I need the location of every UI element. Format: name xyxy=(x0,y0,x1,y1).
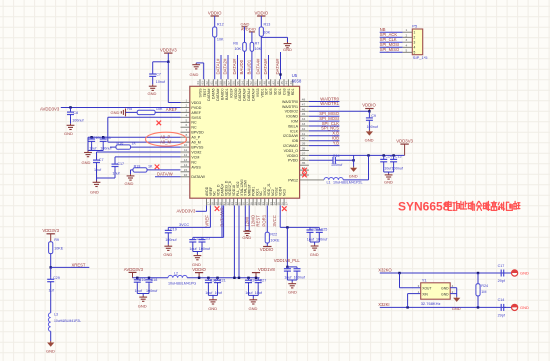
svg-text:DATA4#: DATA4# xyxy=(256,58,261,74)
svg-text:100nuf: 100nuf xyxy=(294,276,306,280)
svg-text:DATA3#: DATA3# xyxy=(232,58,237,74)
svg-text:I2CWA/D: I2CWA/D xyxy=(283,144,298,148)
svg-text:GND: GND xyxy=(138,303,147,308)
svg-text:1nuf: 1nuf xyxy=(94,168,102,172)
svg-text:60: 60 xyxy=(214,81,218,85)
svg-text:1K: 1K xyxy=(148,164,153,168)
svg-text:VDD3: VDD3 xyxy=(191,101,201,105)
svg-text:BAUD1: BAUD1 xyxy=(246,59,251,74)
svg-text:AVSS: AVSS xyxy=(191,165,201,169)
svg-text:VDDIO: VDDIO xyxy=(254,10,268,15)
svg-text:40: 40 xyxy=(302,137,306,141)
svg-text:29pf: 29pf xyxy=(498,313,506,317)
svg-text:CS3: CS3 xyxy=(282,88,286,95)
svg-text:100nuf: 100nuf xyxy=(165,238,177,242)
svg-text:37: 37 xyxy=(302,151,306,155)
svg-text:48: 48 xyxy=(302,98,306,102)
svg-text:100nuf: 100nuf xyxy=(199,247,211,251)
svg-text:GND: GND xyxy=(441,286,449,290)
svg-text:GND: GND xyxy=(163,252,172,257)
svg-text:PVDD: PVDD xyxy=(288,159,298,163)
svg-text:VDD3_O: VDD3_O xyxy=(284,149,299,153)
svg-text:SD1: SD1 xyxy=(278,88,282,95)
svg-text:15: 15 xyxy=(184,168,188,172)
svg-text:3: 3 xyxy=(185,108,187,112)
svg-text:BPVDD: BPVDD xyxy=(191,131,204,135)
svg-text:GND: GND xyxy=(192,262,201,267)
svg-text:4: 4 xyxy=(406,43,408,47)
svg-text:C8: C8 xyxy=(73,111,78,115)
svg-text:1: 1 xyxy=(414,31,416,35)
svg-text:45: 45 xyxy=(302,112,306,116)
svg-text:VDDIO: VDDIO xyxy=(362,103,376,108)
svg-text:IOGND: IOGND xyxy=(286,115,298,119)
svg-text:41: 41 xyxy=(302,132,306,136)
svg-text:1uf: 1uf xyxy=(49,288,55,292)
svg-text:SD7: SD7 xyxy=(265,88,269,95)
svg-text:43: 43 xyxy=(302,122,306,126)
svg-text:10K: 10K xyxy=(156,107,163,111)
svg-text:14: 14 xyxy=(184,163,188,167)
svg-text:47: 47 xyxy=(302,102,306,106)
svg-text:R22: R22 xyxy=(270,232,277,236)
svg-text:VDD3V3: VDD3V3 xyxy=(42,228,59,233)
svg-text:I2CDA/W: I2CDA/W xyxy=(283,134,299,138)
svg-text:6658: 6658 xyxy=(292,79,302,84)
svg-text:POR1: POR1 xyxy=(262,214,267,226)
svg-text:BAUD1: BAUD1 xyxy=(225,88,229,99)
svg-text:VDD3V3: VDD3V3 xyxy=(160,48,177,53)
svg-text:SD5: SD5 xyxy=(269,88,273,95)
svg-text:100nuf: 100nuf xyxy=(316,237,328,241)
svg-text:59: 59 xyxy=(218,81,222,85)
svg-text:10uf: 10uf xyxy=(215,291,223,295)
svg-text:62: 62 xyxy=(205,81,209,85)
svg-text:DATA6#: DATA6# xyxy=(207,88,211,100)
svg-text:RD1: RD1 xyxy=(291,88,295,95)
svg-text:2: 2 xyxy=(414,36,416,40)
svg-text:XREST: XREST xyxy=(72,262,86,267)
svg-text:IOB: IOB xyxy=(292,139,299,143)
svg-text:100nuf: 100nuf xyxy=(72,118,84,122)
svg-text:GND: GND xyxy=(365,137,374,142)
svg-text:PW12: PW12 xyxy=(288,178,298,182)
svg-text:VDDIO2: VDDIO2 xyxy=(285,110,298,114)
svg-text:L2: L2 xyxy=(174,272,178,276)
svg-text:52: 52 xyxy=(249,81,253,85)
svg-text:X32KI: X32KI xyxy=(378,302,389,307)
svg-text:AVDD3V3: AVDD3V3 xyxy=(177,209,196,214)
svg-text:WA/DTR1: WA/DTR1 xyxy=(282,105,298,109)
svg-text:10KE: 10KE xyxy=(54,247,64,251)
svg-text:X32KO: X32KO xyxy=(378,268,392,273)
svg-text:100nuf: 100nuf xyxy=(367,125,379,129)
svg-text:NC: NC xyxy=(191,126,197,130)
svg-text:61: 61 xyxy=(210,81,214,85)
svg-text:XIN: XIN xyxy=(422,292,428,296)
svg-text:10uH&BLM41PG: 10uH&BLM41PG xyxy=(168,281,196,285)
svg-text:13: 13 xyxy=(184,158,188,162)
svg-text:U5: U5 xyxy=(292,73,298,78)
svg-text:WA/DTR1: WA/DTR1 xyxy=(320,101,339,106)
svg-text:Y.B: Y.B xyxy=(333,140,339,145)
svg-text:47: 47 xyxy=(271,81,275,85)
svg-text:GND: GND xyxy=(82,160,91,165)
svg-text:GND: GND xyxy=(64,131,73,136)
svg-text:45: 45 xyxy=(280,81,284,85)
svg-text:VCM: VCM xyxy=(191,155,199,159)
svg-text:Y1: Y1 xyxy=(422,277,428,282)
svg-text:VDD1V8_PLL: VDD1V8_PLL xyxy=(274,258,301,263)
svg-text:GND: GND xyxy=(190,72,199,77)
svg-text:DATA5: DATA5 xyxy=(212,88,216,99)
svg-text:DATA2#: DATA2# xyxy=(238,88,242,100)
svg-text:GND: GND xyxy=(520,271,529,276)
svg-text:VDDIO: VDDIO xyxy=(192,267,206,272)
svg-text:VCM2: VCM2 xyxy=(191,150,201,154)
svg-text:AVDD3V3: AVDD3V3 xyxy=(124,267,144,272)
svg-text:SVSS: SVSS xyxy=(191,116,201,120)
svg-text:56: 56 xyxy=(232,81,236,85)
svg-text:29pf: 29pf xyxy=(498,279,506,283)
svg-text:R6: R6 xyxy=(233,42,238,46)
svg-text:GND: GND xyxy=(249,306,258,311)
svg-text:10uH&BLM41P2L: 10uH&BLM41P2L xyxy=(333,181,363,185)
svg-text:SIP_1*5: SIP_1*5 xyxy=(413,55,428,60)
svg-text:C13: C13 xyxy=(395,155,402,159)
svg-text:TEST: TEST xyxy=(203,89,207,98)
svg-text:32.768KHz: 32.768KHz xyxy=(421,301,441,306)
svg-text:VDDIO: VDDIO xyxy=(234,88,238,99)
svg-text:DATA0#: DATA0# xyxy=(251,88,255,100)
svg-text:44: 44 xyxy=(302,117,306,121)
svg-text:DATA4#: DATA4# xyxy=(216,88,220,100)
svg-text:1nuf: 1nuf xyxy=(307,237,315,241)
svg-text:7: 7 xyxy=(185,128,187,132)
svg-text:DATA/W: DATA/W xyxy=(191,175,205,179)
svg-text:GND: GND xyxy=(46,349,55,354)
svg-text:10KE: 10KE xyxy=(270,239,280,243)
svg-text:16: 16 xyxy=(184,173,188,177)
svg-text:1K: 1K xyxy=(132,142,137,146)
svg-text:58: 58 xyxy=(223,81,227,85)
svg-text:38: 38 xyxy=(302,147,306,151)
svg-text:GND: GND xyxy=(111,110,120,115)
svg-text:R16: R16 xyxy=(117,142,124,146)
svg-text:VREF: VREF xyxy=(205,215,210,227)
svg-text:6: 6 xyxy=(185,123,187,127)
svg-text:5: 5 xyxy=(406,48,408,52)
svg-text:VDDIO: VDDIO xyxy=(208,10,222,15)
svg-text:P5: P5 xyxy=(412,24,418,29)
svg-text:1M: 1M xyxy=(481,290,486,294)
svg-text:VDDIO: VDDIO xyxy=(260,247,274,252)
svg-text:3VCC: 3VCC xyxy=(272,215,277,226)
svg-text:A0_P: A0_P xyxy=(191,136,200,140)
svg-text:GND: GND xyxy=(208,306,217,311)
svg-text:1nuf: 1nuf xyxy=(284,276,292,280)
svg-text:ICLK: ICLK xyxy=(290,129,299,133)
svg-text:AREF: AREF xyxy=(166,107,178,112)
svg-text:PVDD: PVDD xyxy=(191,106,201,110)
svg-text:BAUD0: BAUD0 xyxy=(239,59,244,74)
svg-text:WR1: WR1 xyxy=(287,88,291,96)
svg-text:1nuf: 1nuf xyxy=(135,289,143,293)
svg-text:48: 48 xyxy=(267,81,271,85)
svg-text:WA/DTR0: WA/DTR0 xyxy=(282,100,298,104)
svg-text:64: 64 xyxy=(196,81,200,85)
svg-text:DATA2#: DATA2# xyxy=(222,58,227,74)
svg-text:IOM: IOM xyxy=(291,120,298,124)
svg-text:NC3: NC3 xyxy=(283,189,287,196)
svg-text:3VCC: 3VCC xyxy=(179,223,189,227)
svg-text:VDD1: VDD1 xyxy=(260,88,264,97)
svg-text:NC: NC xyxy=(191,121,197,125)
svg-text:GND: GND xyxy=(452,306,461,311)
svg-text:C7: C7 xyxy=(156,73,161,77)
svg-text:SD3: SD3 xyxy=(274,88,278,95)
svg-text:1nuf: 1nuf xyxy=(245,291,253,295)
svg-text:53: 53 xyxy=(245,81,249,85)
svg-text:1nuf: 1nuf xyxy=(205,291,213,295)
svg-text:12: 12 xyxy=(184,153,188,157)
svg-text:100nuf: 100nuf xyxy=(146,289,158,293)
svg-text:IO02#: IO02# xyxy=(229,88,233,97)
svg-text:R19: R19 xyxy=(134,164,141,168)
svg-text:100nuf: 100nuf xyxy=(331,163,343,167)
svg-text:GND: GND xyxy=(90,190,99,195)
svg-text:R9: R9 xyxy=(54,238,59,242)
svg-text:54: 54 xyxy=(240,81,244,85)
svg-text:63: 63 xyxy=(201,81,205,85)
svg-text:A0_M: A0_M xyxy=(191,141,200,145)
svg-text:BPVSS: BPVSS xyxy=(191,146,204,150)
svg-text:49: 49 xyxy=(263,81,267,85)
svg-text:42: 42 xyxy=(302,127,306,131)
svg-text:2: 2 xyxy=(185,104,187,108)
svg-text:R13: R13 xyxy=(264,22,271,26)
svg-text:REST: REST xyxy=(256,215,261,227)
svg-text:GND: GND xyxy=(283,47,292,52)
svg-text:4: 4 xyxy=(414,46,416,50)
svg-text:DATA/W: DATA/W xyxy=(157,172,173,177)
svg-text:1nuf: 1nuf xyxy=(112,172,120,176)
svg-text:1nuf: 1nuf xyxy=(189,247,197,251)
svg-text:3: 3 xyxy=(414,41,416,45)
svg-text:3: 3 xyxy=(406,38,408,42)
svg-text:35: 35 xyxy=(302,161,306,165)
svg-text:46: 46 xyxy=(276,81,280,85)
svg-text:GND: GND xyxy=(441,292,449,296)
svg-text:BAUD0: BAUD0 xyxy=(221,88,225,99)
svg-text:AREF: AREF xyxy=(191,111,201,115)
svg-text:C14: C14 xyxy=(333,154,340,158)
svg-text:R7: R7 xyxy=(255,42,260,46)
svg-text:10K: 10K xyxy=(217,38,224,42)
svg-text:55: 55 xyxy=(236,81,240,85)
svg-text:DATA5#: DATA5# xyxy=(263,58,268,74)
svg-text:DATA3#: DATA3# xyxy=(243,88,247,100)
svg-text:R12: R12 xyxy=(217,22,224,26)
svg-text:AVDDIO: AVDDIO xyxy=(241,27,256,32)
svg-text:10K: 10K xyxy=(264,30,271,34)
svg-text:ISELA: ISELA xyxy=(288,124,299,128)
svg-text:GND: GND xyxy=(242,235,251,240)
svg-text:37: 37 xyxy=(284,202,288,206)
svg-text:2: 2 xyxy=(406,33,408,37)
svg-text:1nuf: 1nuf xyxy=(89,146,97,150)
svg-text:5: 5 xyxy=(414,51,416,55)
svg-text:VSS3: VSS3 xyxy=(256,88,260,97)
svg-text:51: 51 xyxy=(254,81,258,85)
svg-text:GND: GND xyxy=(310,252,319,257)
svg-text:10uf: 10uf xyxy=(255,291,263,295)
svg-text:10uH&BLM41P2L: 10uH&BLM41P2L xyxy=(54,319,81,323)
svg-text:VDD3V3: VDD3V3 xyxy=(396,138,413,143)
svg-text:GND: GND xyxy=(288,290,297,295)
svg-text:DATA1#: DATA1# xyxy=(247,88,251,100)
svg-text:GND: GND xyxy=(148,91,157,96)
svg-text:39: 39 xyxy=(302,142,306,146)
svg-text:GND: GND xyxy=(520,305,529,310)
svg-text:C14: C14 xyxy=(385,155,392,159)
svg-text:57: 57 xyxy=(227,81,231,85)
svg-text:46: 46 xyxy=(302,107,306,111)
svg-text:4: 4 xyxy=(185,113,187,117)
svg-text:GND: GND xyxy=(125,181,134,186)
svg-text:A0_M: A0_M xyxy=(160,139,171,144)
svg-text:L1: L1 xyxy=(327,181,331,185)
svg-text:50: 50 xyxy=(258,81,262,85)
svg-text:NC: NC xyxy=(191,160,197,164)
svg-text:R24: R24 xyxy=(481,284,488,288)
svg-text:R5: R5 xyxy=(127,107,132,111)
svg-text:11: 11 xyxy=(184,148,187,152)
svg-text:GND: GND xyxy=(349,174,358,179)
svg-text:XOUT: XOUT xyxy=(422,286,431,290)
svg-text:L3: L3 xyxy=(54,313,58,317)
svg-text:10K: 10K xyxy=(234,47,241,51)
svg-text:36: 36 xyxy=(302,156,306,160)
svg-text:C17: C17 xyxy=(498,264,505,268)
svg-text:44: 44 xyxy=(285,81,289,85)
svg-text:GND: GND xyxy=(384,180,393,185)
svg-text:DATA1#: DATA1# xyxy=(215,58,220,74)
svg-text:AVDD3V3: AVDD3V3 xyxy=(40,106,60,111)
svg-text:VDDIO: VDDIO xyxy=(287,154,299,158)
svg-text:5: 5 xyxy=(185,118,187,122)
svg-text:SYN6658: SYN6658 xyxy=(398,200,450,214)
svg-text:C14: C14 xyxy=(498,298,505,302)
svg-text:10: 10 xyxy=(184,143,188,147)
svg-text:SVSS: SVSS xyxy=(198,88,202,98)
svg-text:1: 1 xyxy=(406,28,408,32)
svg-text:VDD1V8: VDD1V8 xyxy=(258,267,275,272)
svg-text:10nuf: 10nuf xyxy=(156,80,166,84)
svg-text:1: 1 xyxy=(185,99,187,103)
svg-text:DATA6#: DATA6# xyxy=(275,58,280,74)
svg-text:10K: 10K xyxy=(255,47,262,51)
svg-text:SPI_MISO: SPI_MISO xyxy=(380,47,399,52)
